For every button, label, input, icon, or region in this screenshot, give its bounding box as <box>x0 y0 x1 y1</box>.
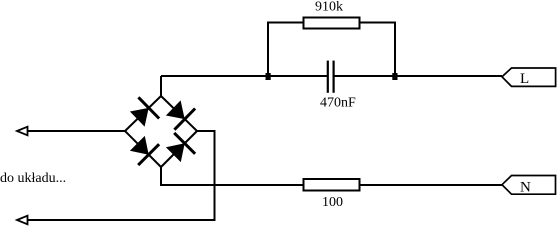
node junction dot left of parallel RC <box>266 73 271 80</box>
wire 910k left riser <box>268 23 303 77</box>
wire main top line left segment (bridge top riser corner to capacitor left plate) <box>161 75 327 77</box>
bridge B1 diamond side top-right <box>161 96 197 131</box>
svg-text:N: N <box>520 179 531 195</box>
svg-text:470nF: 470nF <box>320 96 356 111</box>
diode D3 bottom-left (anode left node, cathode bottom node) <box>130 136 159 165</box>
port N terminal flag <box>502 176 556 195</box>
bridge B1 diamond side top-left <box>125 96 161 131</box>
terminal arrow upper-left output <box>17 127 28 136</box>
bridge B1 diamond side bottom-right <box>161 131 197 167</box>
capacitor C1 470nF left plate <box>327 61 329 93</box>
bridge B1 diamond side bottom-left <box>125 131 161 167</box>
diode D1 top-left (anode left node, cathode top node) <box>130 97 159 126</box>
svg-text:do układu...: do układu... <box>0 171 66 186</box>
wire bridge right node across and down to lower-left output arrow <box>28 131 215 220</box>
wire main top line right segment (capacitor right plate to L terminal) <box>335 75 503 77</box>
resistor R2 100 body <box>304 179 360 191</box>
wire 100 ohm resistor to N terminal <box>360 184 502 186</box>
wire 910k right riser <box>360 23 395 77</box>
svg-text:910k: 910k <box>315 0 343 15</box>
resistor R1 910k body <box>304 18 360 29</box>
node junction dot right of parallel RC <box>392 73 397 80</box>
wire bridge top node riser <box>160 76 162 96</box>
port L terminal flag <box>502 68 556 86</box>
wire bridge bottom node down and right to 100 ohm resistor <box>161 167 303 185</box>
wire bridge left node to upper-left output arrow <box>28 130 126 132</box>
svg-text:100: 100 <box>322 195 343 210</box>
diode D2 top-right (anode top node, cathode right node) <box>166 100 195 129</box>
diode D4 bottom-right (anode bottom node, cathode right node) <box>166 133 195 162</box>
svg-text:L: L <box>520 71 529 87</box>
terminal arrow lower-left output <box>17 216 28 225</box>
capacitor C1 470nF right plate <box>333 61 335 93</box>
